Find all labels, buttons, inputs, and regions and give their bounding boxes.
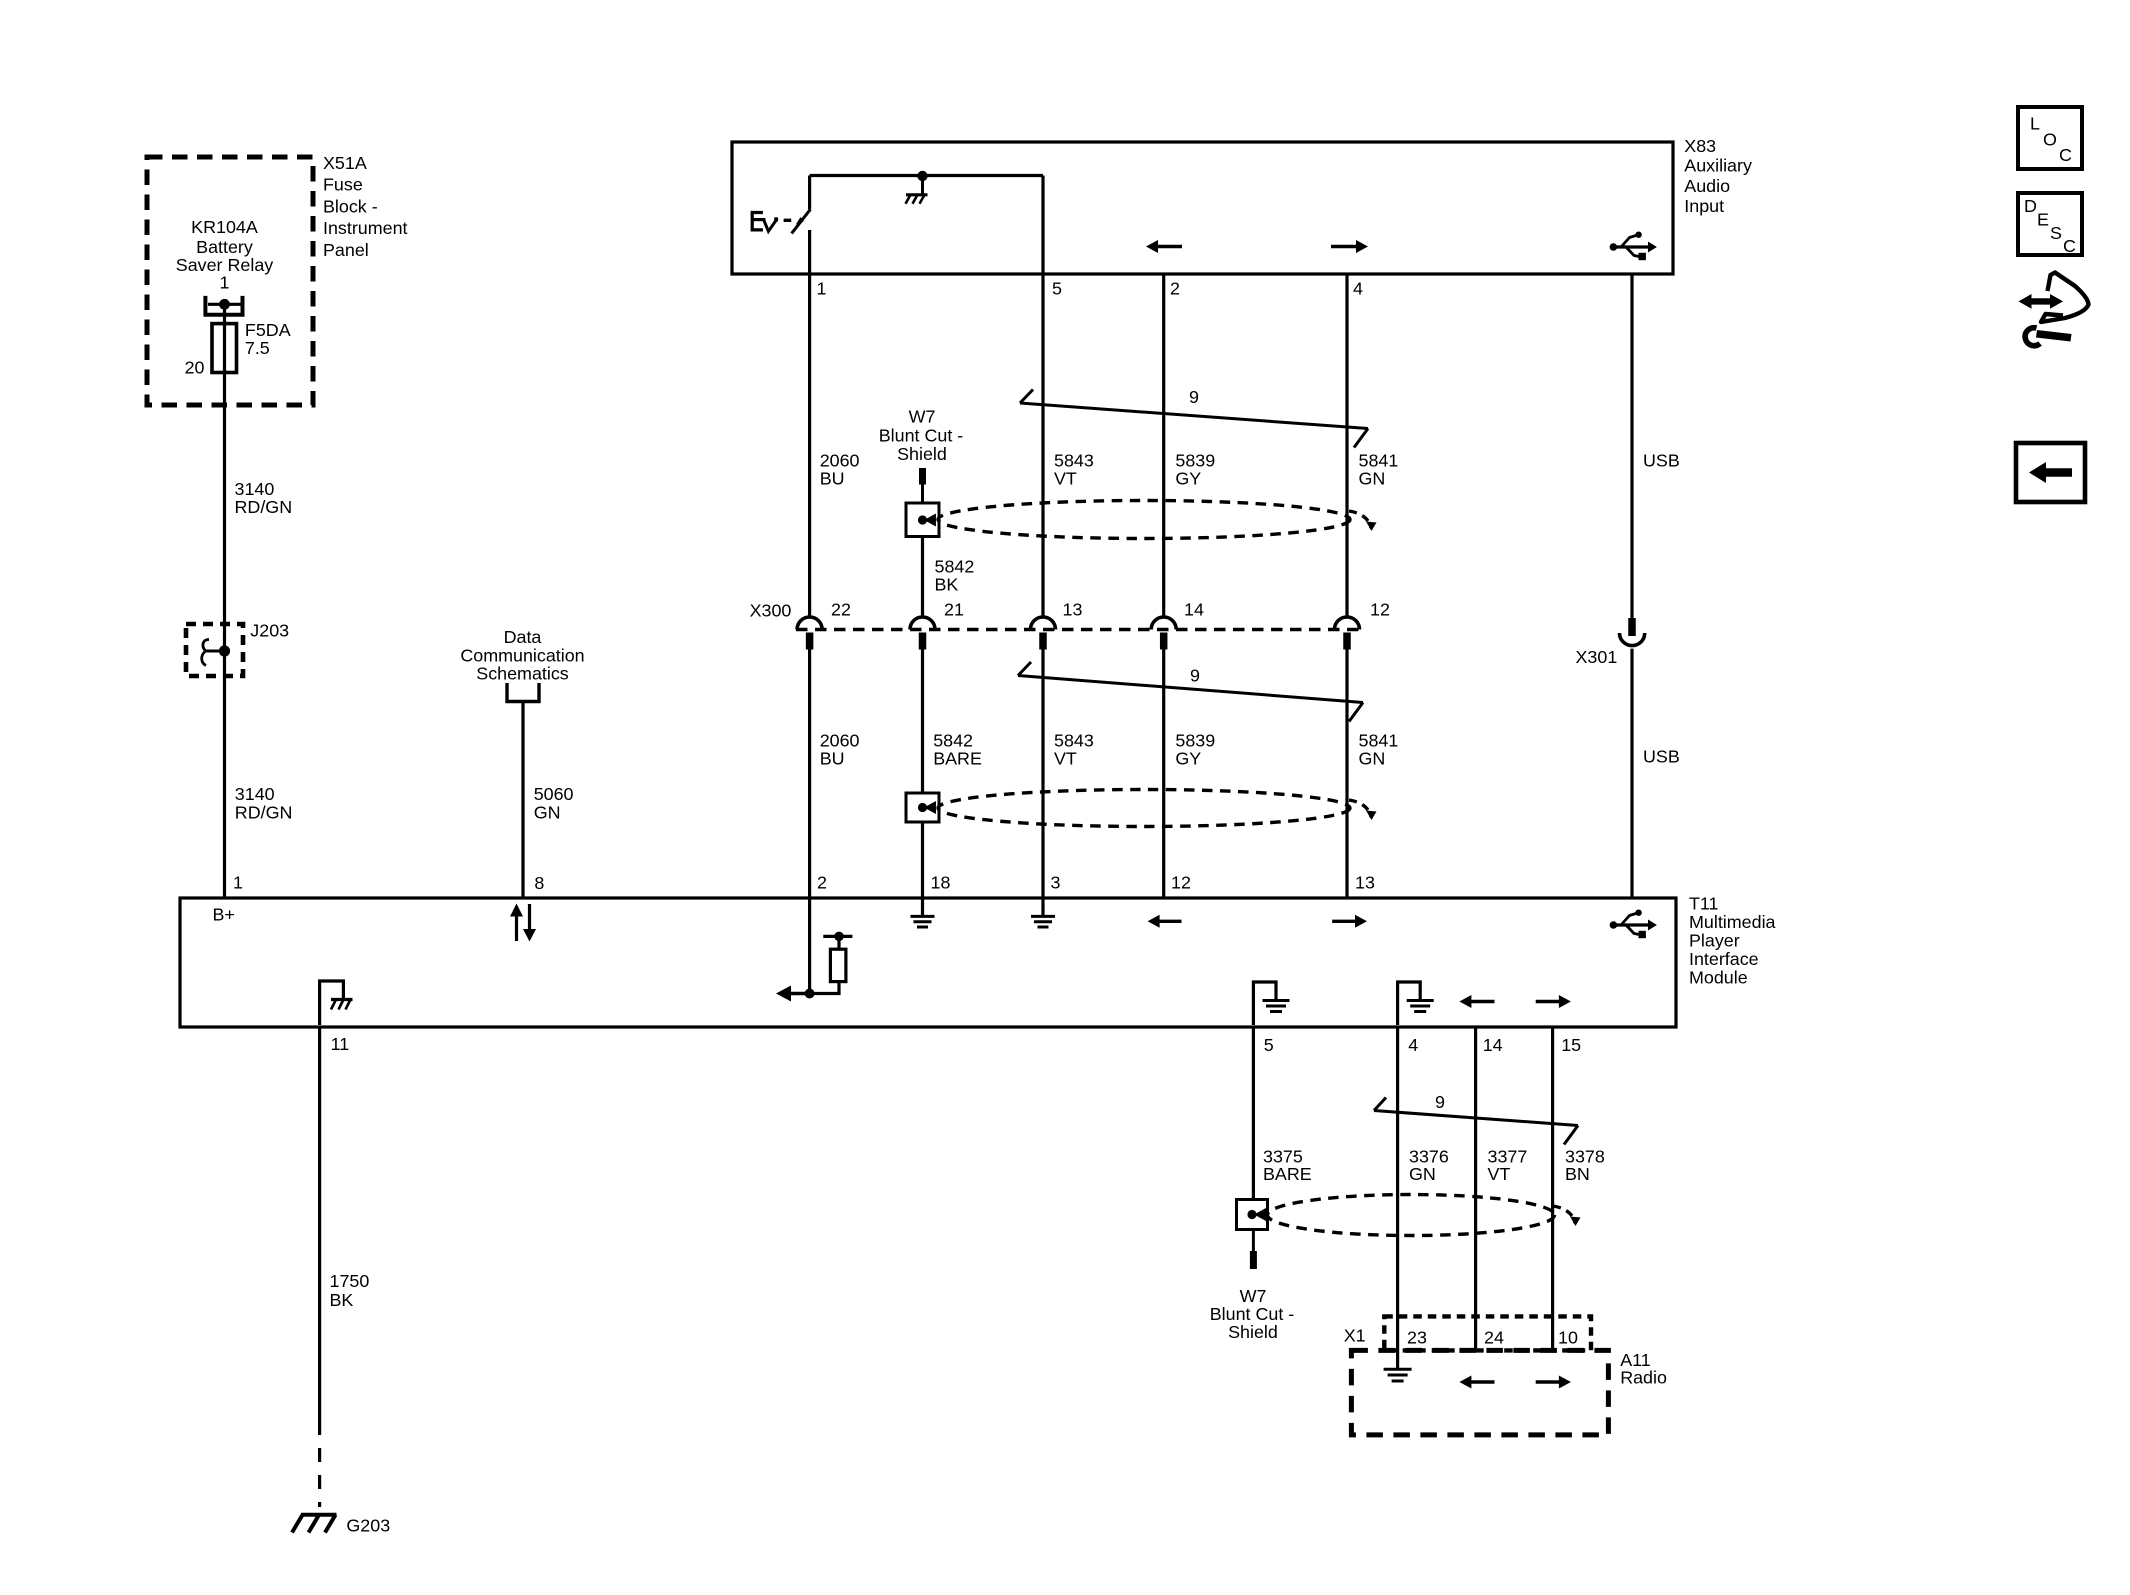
svg-text:L: L <box>2030 114 2040 134</box>
label wire 5843 VT (lower) <box>1054 731 1094 769</box>
wire X83 USB to X301 <box>1630 274 1633 618</box>
wire T11 pin4 to A11 ground <box>1396 1027 1399 1369</box>
svg-text:GN: GN <box>1359 748 1386 768</box>
svg-text:D: D <box>2024 196 2037 216</box>
svg-text:3140: 3140 <box>235 784 275 804</box>
splice J203 symbol <box>202 640 230 666</box>
splice node (lower shield) <box>918 803 927 812</box>
fuse block X51A dashed box <box>147 157 313 405</box>
svg-text:Schematics: Schematics <box>476 664 569 684</box>
svg-text:21: 21 <box>944 600 964 620</box>
svg-text:20: 20 <box>185 358 205 378</box>
svg-text:1: 1 <box>817 279 827 299</box>
label F5DA 7.5 <box>245 320 291 358</box>
splice J203 dashed box <box>186 624 243 676</box>
label wire 5843 VT (upper) <box>1054 450 1094 488</box>
svg-text:Panel: Panel <box>323 240 369 260</box>
switch blade (jack detect) <box>792 209 811 233</box>
svg-text:13: 13 <box>1355 873 1375 893</box>
fuse F5DA 7.5 <box>212 324 237 373</box>
svg-text:14: 14 <box>1184 600 1204 620</box>
label wire 3140 RD/GN (upper) <box>235 479 293 517</box>
svg-text:BU: BU <box>820 748 845 768</box>
pin8 bidirectional data arrows <box>510 904 536 942</box>
label wire 5842 BK <box>935 557 975 595</box>
wire T11 pin15 to X1-10 <box>1551 1027 1554 1350</box>
svg-text:18: 18 <box>931 873 951 893</box>
wire X300-22 to T11 pin2 <box>808 650 811 899</box>
T11 Multimedia Player Interface Module box <box>180 898 1676 1027</box>
svg-text:GN: GN <box>1359 468 1386 488</box>
svg-text:GY: GY <box>1175 468 1201 488</box>
svg-text:BN: BN <box>1565 1164 1590 1184</box>
shield splice box (radio) <box>1237 1200 1268 1230</box>
label Data Communication Schematics <box>460 627 584 684</box>
label wire 5839 GY (upper) <box>1175 450 1215 488</box>
USB icon (T11) <box>1610 910 1657 939</box>
wire blunt cut to shield splice <box>921 485 924 504</box>
wire internal X83 horizontal <box>810 174 1043 177</box>
splice node (radio shield) <box>1247 1210 1256 1219</box>
svg-text:O: O <box>2043 130 2057 150</box>
svg-text:Player: Player <box>1689 931 1740 951</box>
wire shield splice to X300-21 <box>921 537 924 618</box>
svg-text:G203: G203 <box>346 1516 390 1536</box>
icon back-arrow box <box>2016 443 2085 502</box>
off-page reference bracket <box>507 683 539 702</box>
ground (internal T11 pin 11 chassis) <box>320 981 353 1025</box>
wire X83 pin1 to X300-22 <box>808 230 811 617</box>
shield ellipse (radio) <box>1268 1195 1555 1236</box>
node pin2 internal <box>805 989 815 999</box>
connector X300 cavity 21 <box>910 617 935 650</box>
svg-text:3: 3 <box>1051 873 1061 893</box>
wire node to resistor <box>810 982 839 994</box>
label T11 Multimedia Player Interface Module <box>1689 894 1776 988</box>
svg-text:BU: BU <box>820 468 845 488</box>
arrow left (internal A11 pin 24) <box>1459 1376 1494 1389</box>
X83 Auxiliary Audio Input box <box>732 142 1673 274</box>
svg-text:23: 23 <box>1407 1328 1427 1348</box>
wire shield splice to T11 pin18 <box>921 822 924 898</box>
wire X83 pin5 to X300-13 <box>1041 274 1044 617</box>
wire T11 pin11 to G203 (solid) <box>318 1027 321 1421</box>
ground bracket (internal T11 pin 4) <box>1398 982 1434 1025</box>
label wire 5060 GN <box>534 784 574 823</box>
resistor (internal T11) <box>830 949 846 981</box>
svg-text:F5DA: F5DA <box>245 320 291 340</box>
svg-text:Blunt Cut -: Blunt Cut - <box>1210 1304 1295 1324</box>
svg-text:5: 5 <box>1052 279 1062 299</box>
blunt cut terminal (radio shield) <box>1250 1251 1257 1269</box>
shield splice box (upper) <box>906 503 939 537</box>
svg-text:X300: X300 <box>750 601 792 621</box>
svg-text:22: 22 <box>831 600 851 620</box>
svg-text:15: 15 <box>1561 1035 1581 1055</box>
svg-text:12: 12 <box>1171 873 1191 893</box>
svg-text:12: 12 <box>1370 600 1390 620</box>
svg-text:Communication: Communication <box>460 645 584 665</box>
arrow left (internal pin2) <box>776 986 810 1002</box>
svg-text:T11: T11 <box>1689 894 1719 914</box>
wire T11 pin2 internal to resistor node <box>808 898 811 994</box>
twisted-pair symbol 9 (radio) <box>1374 1098 1578 1145</box>
svg-text:Radio: Radio <box>1620 1367 1667 1387</box>
arrow left (internal pin 12) <box>1148 915 1182 928</box>
svg-text:Blunt Cut -: Blunt Cut - <box>879 426 964 446</box>
label wire 3375 BARE <box>1263 1146 1312 1184</box>
svg-text:Auxiliary: Auxiliary <box>1684 156 1752 176</box>
svg-text:Multimedia: Multimedia <box>1689 912 1776 932</box>
svg-text:Interface: Interface <box>1689 949 1759 969</box>
ground (internal X83 chassis) <box>906 176 928 204</box>
connector X301 (USB inline) <box>1620 618 1645 646</box>
svg-text:9: 9 <box>1190 666 1200 686</box>
wire X83 pin2 to X300-14 <box>1162 274 1165 617</box>
connector X1 dashed box <box>1384 1316 1591 1350</box>
svg-text:GY: GY <box>1175 748 1201 768</box>
arrow left (X83 pin 2 audio in) <box>1146 240 1182 253</box>
svg-text:GN: GN <box>1409 1164 1436 1184</box>
svg-text:BARE: BARE <box>933 748 982 768</box>
node junction on internal wire <box>917 171 927 181</box>
relay KR104A contact <box>204 296 245 315</box>
wire X83 pin4 to X300-12 <box>1345 274 1348 617</box>
svg-text:Shield: Shield <box>1228 1322 1278 1342</box>
svg-text:VT: VT <box>1054 468 1077 488</box>
label wire 1750 BK <box>330 1271 370 1310</box>
icon connector-view (double arrow, outline, wrench) <box>2019 273 2089 346</box>
ground (internal T11 pin 18) <box>911 898 935 927</box>
svg-text:4: 4 <box>1408 1035 1418 1055</box>
svg-text:5842: 5842 <box>935 557 975 577</box>
wire X301 to T11 USB <box>1630 649 1633 898</box>
svg-text:11: 11 <box>331 1034 350 1054</box>
rail bar with node <box>823 935 852 938</box>
svg-text:Audio: Audio <box>1684 176 1730 196</box>
svg-text:Data: Data <box>504 627 542 647</box>
ground G203 <box>292 1515 337 1533</box>
label wire 5839 GY (lower) <box>1175 731 1215 769</box>
arrow right (internal pin 13) <box>1332 915 1367 928</box>
ground bracket (internal T11 pin 5) <box>1253 982 1289 1025</box>
icon LOC box <box>2018 107 2082 169</box>
svg-text:4: 4 <box>1353 279 1363 299</box>
wire X300-14 to T11 pin12 <box>1162 650 1165 899</box>
label W7 Blunt Cut - Shield (radio) <box>1210 1286 1295 1342</box>
audio jack glyph <box>752 213 791 232</box>
label wire 5841 GN (lower) <box>1359 731 1399 769</box>
label A11 Radio <box>1620 1350 1667 1388</box>
svg-text:24: 24 <box>1484 1328 1504 1348</box>
svg-text:14: 14 <box>1483 1035 1503 1055</box>
svg-text:C: C <box>2059 145 2072 165</box>
ground (internal A11 pin 23) <box>1384 1369 1412 1381</box>
svg-text:13: 13 <box>1063 600 1083 620</box>
blunt cut terminal (upper shield) <box>919 468 926 485</box>
svg-text:Fuse: Fuse <box>323 175 363 195</box>
svg-text:BARE: BARE <box>1263 1164 1312 1184</box>
svg-text:9: 9 <box>1189 387 1199 407</box>
svg-text:10: 10 <box>1558 1328 1578 1348</box>
svg-text:X51A: X51A <box>323 153 367 173</box>
label wire 2060 BU (lower) <box>820 731 860 769</box>
svg-text:Block -: Block - <box>323 196 378 216</box>
shield ellipse (lower) <box>938 790 1350 827</box>
svg-text:1: 1 <box>233 873 243 893</box>
svg-text:S: S <box>2050 223 2062 243</box>
svg-text:X1: X1 <box>1344 1326 1366 1346</box>
wire dashed to G203 <box>318 1421 321 1507</box>
wire data-comm to T11 pin 8 <box>521 702 524 899</box>
wire internal jack drop <box>808 176 811 210</box>
label wire 3378 BN <box>1565 1146 1605 1184</box>
wire resistor to rail <box>837 936 840 949</box>
wire X300-12 to T11 pin13 <box>1345 650 1348 899</box>
svg-text:VT: VT <box>1054 748 1077 768</box>
A11 Radio dashed box <box>1351 1350 1608 1435</box>
svg-text:Instrument: Instrument <box>323 218 408 238</box>
svg-text:J203: J203 <box>250 621 289 641</box>
arrow right (internal pin 15) <box>1536 995 1571 1008</box>
svg-text:9: 9 <box>1435 1092 1445 1112</box>
connector X300 cavity 12 <box>1335 617 1360 650</box>
svg-text:2: 2 <box>817 873 827 893</box>
label KR104A Battery Saver Relay pin 1 <box>176 217 274 293</box>
svg-text:2: 2 <box>1170 279 1180 299</box>
label wire 5842 BARE <box>933 731 982 769</box>
label X51A Fuse Block - Instrument Panel <box>323 153 408 260</box>
USB icon (X83) <box>1610 232 1657 261</box>
wire X300-13 to T11 pin3 <box>1041 650 1044 899</box>
svg-text:USB: USB <box>1643 451 1680 471</box>
svg-text:C: C <box>2063 236 2076 256</box>
wire internal X83 pin5 drop <box>1041 176 1044 275</box>
wire T11 pin14 to X1-24 <box>1474 1027 1477 1350</box>
arrow right (X83 pin 4 audio out) <box>1331 240 1368 253</box>
label wire 3376 GN <box>1409 1146 1449 1184</box>
wire T11 pin5 to shield splice (radio) <box>1252 1027 1255 1200</box>
label wire 3377 VT <box>1488 1146 1528 1184</box>
svg-text:VT: VT <box>1488 1164 1511 1184</box>
svg-text:Battery: Battery <box>196 237 253 257</box>
svg-text:GN: GN <box>534 803 561 823</box>
label wire 2060 BU (upper) <box>820 450 860 488</box>
connector X300 cavity 14 <box>1151 617 1176 650</box>
svg-text:RD/GN: RD/GN <box>235 497 293 517</box>
connector row X300 dashed line <box>796 628 1360 632</box>
svg-text:RD/GN: RD/GN <box>235 803 293 823</box>
svg-text:BK: BK <box>330 1290 354 1310</box>
arrow right (internal A11 pin 10) <box>1536 1376 1571 1389</box>
shield ellipse (upper) <box>938 501 1350 539</box>
ground (internal T11 pin 3) <box>1031 898 1055 927</box>
svg-text:Input: Input <box>1684 196 1724 216</box>
svg-text:3140: 3140 <box>235 479 275 499</box>
wire relay to fuse to J203 to T11 pin 1 <box>223 304 226 898</box>
svg-text:8: 8 <box>534 873 544 893</box>
icon DESC box <box>2018 193 2082 256</box>
twisted-pair symbol 9 (middle) <box>1018 662 1363 722</box>
arrow left (internal pin 14) <box>1459 995 1494 1008</box>
label wire 5841 GN (upper) <box>1359 450 1399 488</box>
label X83 Auxiliary Audio Input <box>1684 136 1752 216</box>
splice node (upper shield) <box>918 515 927 524</box>
svg-text:7.5: 7.5 <box>245 338 270 358</box>
wire splice to blunt cut (radio) <box>1252 1230 1255 1252</box>
svg-text:Module: Module <box>1689 967 1748 987</box>
svg-text:W7: W7 <box>909 407 936 427</box>
svg-text:B+: B+ <box>213 905 235 925</box>
wire X300-21 to shield splice (lower) <box>921 650 924 794</box>
svg-text:KR104A: KR104A <box>191 217 258 237</box>
shield splice box (lower) <box>906 793 939 822</box>
svg-text:W7: W7 <box>1240 1286 1267 1306</box>
connector X300 cavity 13 <box>1031 617 1056 650</box>
svg-text:5: 5 <box>1264 1035 1274 1055</box>
svg-text:X83: X83 <box>1684 136 1716 156</box>
label wire 3140 RD/GN (lower) <box>235 784 293 823</box>
label W7 Blunt Cut - Shield (upper) <box>879 407 964 464</box>
svg-text:1750: 1750 <box>330 1271 370 1291</box>
connector X300 cavity 22 <box>797 617 822 650</box>
svg-text:1: 1 <box>220 273 230 293</box>
svg-text:Shield: Shield <box>897 444 947 464</box>
twisted-pair symbol 9 (upper) <box>1020 390 1368 448</box>
svg-text:USB: USB <box>1643 747 1680 767</box>
svg-text:X301: X301 <box>1576 647 1618 667</box>
svg-text:BK: BK <box>935 575 959 595</box>
svg-text:5060: 5060 <box>534 784 574 804</box>
svg-text:E: E <box>2037 210 2049 230</box>
